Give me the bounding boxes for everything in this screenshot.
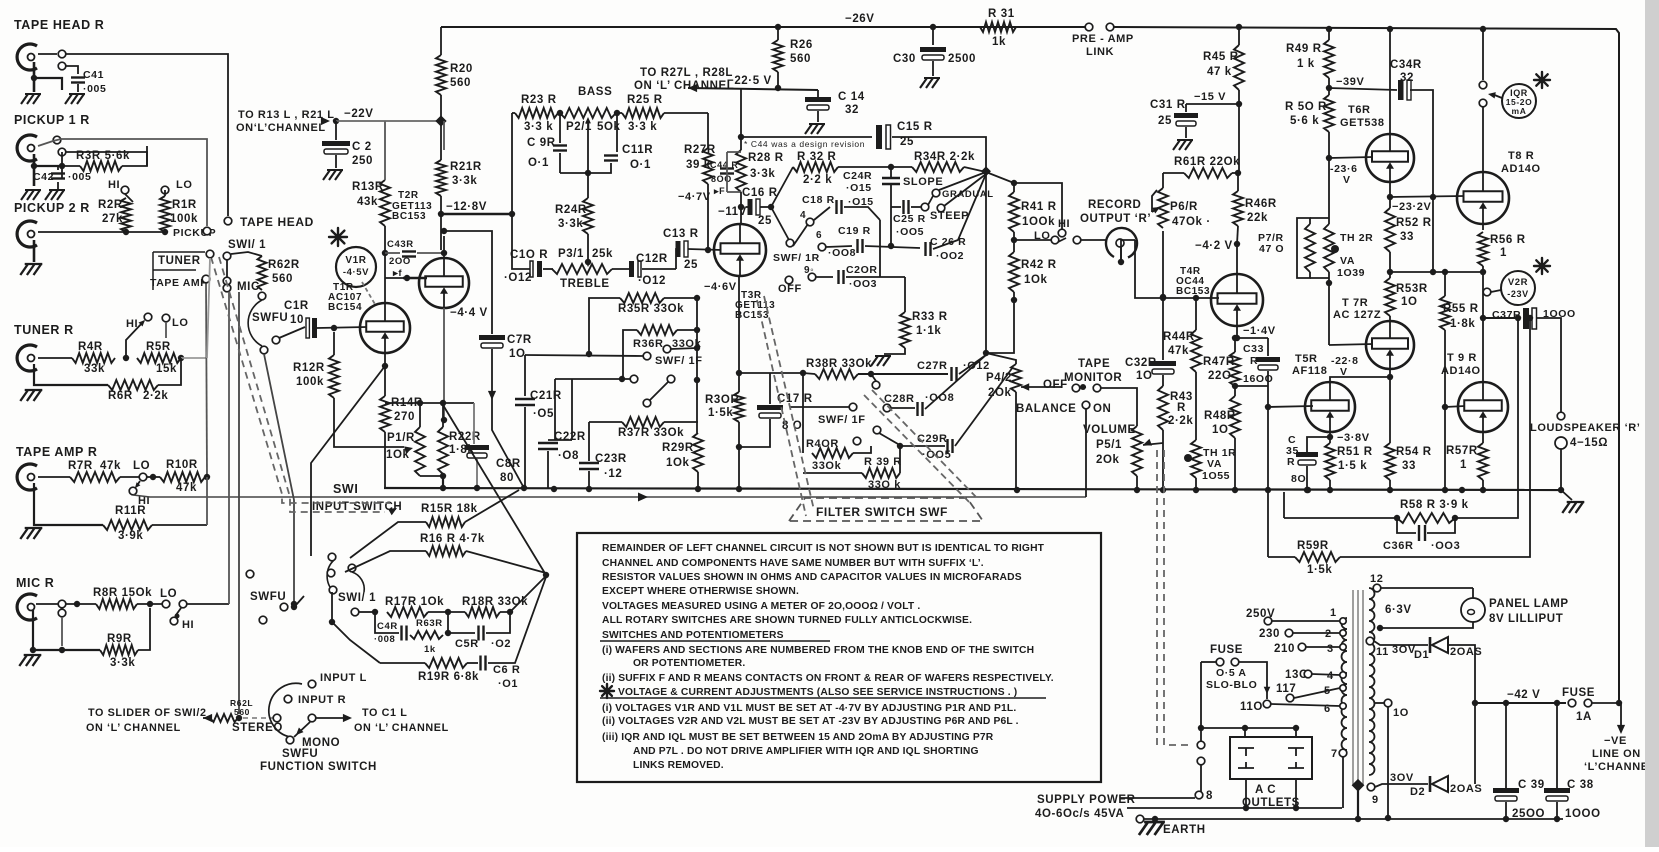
wire <box>137 603 162 605</box>
svg-text:1OOk: 1OOk <box>1022 216 1055 228</box>
capacitor C13R <box>676 241 689 257</box>
wire <box>1390 196 1465 197</box>
resistor R43R <box>1158 386 1168 430</box>
dashed link <box>219 257 385 512</box>
resistor R42R <box>1009 252 1019 292</box>
label tap 5 <box>1324 685 1331 697</box>
svg-text:VA: VA <box>1340 255 1355 267</box>
wire <box>1389 252 1391 278</box>
svg-text:2·2k: 2·2k <box>1168 415 1193 427</box>
wire long diagonal <box>443 405 546 575</box>
svg-text:T 7R: T 7R <box>1342 297 1368 309</box>
label TUNER R <box>14 323 74 337</box>
label -4.7V <box>678 191 711 203</box>
contact link <box>1085 23 1093 31</box>
dashed filter box <box>789 498 983 521</box>
wire <box>61 152 63 178</box>
resistor R59R <box>1295 552 1340 562</box>
contact INPUT L <box>308 680 316 688</box>
label PICKUP 1 R <box>14 113 90 127</box>
capacitor C5R <box>479 626 484 641</box>
resistor R8R <box>96 599 137 609</box>
svg-text:C 39: C 39 <box>1518 779 1545 791</box>
svg-text:P1/R: P1/R <box>387 432 415 444</box>
wire <box>1284 517 1397 519</box>
svg-text:R48R: R48R <box>1204 410 1236 422</box>
node <box>585 259 591 265</box>
capacitor C43R grey <box>402 252 416 257</box>
svg-text:4: 4 <box>1327 670 1334 682</box>
label INPUT SWITCH <box>312 501 402 513</box>
node <box>1118 259 1124 265</box>
label C20R -003 <box>846 264 878 290</box>
wire <box>525 355 643 356</box>
svg-text:47Ok ·: 47Ok · <box>1172 216 1211 228</box>
resistor R55R <box>1440 296 1450 330</box>
capacitor C31R <box>1174 113 1198 126</box>
node <box>31 75 37 81</box>
label tap 1 <box>1330 607 1337 619</box>
svg-text:560: 560 <box>450 77 471 89</box>
meter V1R <box>336 247 376 287</box>
wire <box>380 662 425 664</box>
wire <box>1389 369 1391 377</box>
label R7R 47k LO <box>68 460 150 472</box>
capacitor C22R <box>538 443 558 449</box>
resistor R58R <box>1397 513 1455 523</box>
potentiometer P5/1 VOLUME <box>1132 426 1142 476</box>
svg-text:R11R: R11R <box>115 505 146 517</box>
svg-text:TO C1 L: TO C1 L <box>362 707 407 719</box>
node <box>382 363 388 369</box>
switch SWI/1 arc <box>327 560 334 592</box>
svg-text:INPUT L: INPUT L <box>320 672 367 684</box>
wire <box>1329 480 1331 490</box>
capacitor C36R <box>1419 525 1425 541</box>
node -39V <box>1326 85 1332 91</box>
wire <box>616 112 622 114</box>
svg-text:1OOO: 1OOO <box>1565 808 1601 820</box>
label R49R 1k <box>1286 43 1322 70</box>
resistor R19R <box>425 658 467 668</box>
wire <box>1120 797 1195 799</box>
selector outline <box>153 252 205 290</box>
wire <box>1127 807 1342 809</box>
resistor R63R <box>410 631 443 639</box>
svg-text:A C: A C <box>1255 784 1276 796</box>
dashed gang link2 <box>1164 450 1193 745</box>
capacitor C12R <box>629 261 641 277</box>
label R52R 33 <box>1396 217 1432 243</box>
capacitor C15R <box>876 125 891 149</box>
wire <box>697 472 699 489</box>
node <box>1265 404 1271 410</box>
label R6R 2-2k <box>108 390 168 402</box>
wire <box>1483 317 1521 319</box>
svg-text:2: 2 <box>1325 628 1332 640</box>
node <box>1387 194 1393 200</box>
capacitor C35R <box>1296 452 1318 465</box>
contact IQ link <box>1479 81 1487 89</box>
wire <box>925 355 986 409</box>
label C11R 0-1 <box>622 144 653 171</box>
node <box>1242 725 1248 731</box>
node <box>1011 237 1017 243</box>
wire <box>1013 300 1015 330</box>
label R39R 330k <box>864 456 902 491</box>
wire <box>384 226 386 252</box>
node <box>1198 725 1204 731</box>
label SLOPE <box>903 176 943 188</box>
adjustment star <box>329 228 347 246</box>
label C30 2500 <box>893 53 976 65</box>
resistor R52R <box>1385 208 1395 252</box>
label T5R AF118 <box>1292 353 1327 377</box>
potentiometer P4/2 <box>1011 364 1021 392</box>
contact fuse2 <box>1584 699 1592 707</box>
svg-text:R54 R: R54 R <box>1396 446 1432 458</box>
contact STEEP <box>937 204 945 212</box>
svg-text:C21R: C21R <box>530 390 562 402</box>
wire <box>741 136 872 138</box>
wire <box>817 90 819 98</box>
wire <box>1014 239 1051 241</box>
wire <box>760 206 771 208</box>
transistor T2R <box>419 258 469 308</box>
node bus junction <box>1134 487 1140 493</box>
wire <box>559 153 561 173</box>
svg-text:R3OR: R3OR <box>705 394 739 406</box>
label P6/R 470k <box>1170 201 1211 228</box>
label C16R 25 <box>742 187 778 227</box>
wire <box>500 576 546 612</box>
svg-text:·O12: ·O12 <box>504 272 532 284</box>
label R41R 100k <box>1021 201 1057 228</box>
wire <box>1427 518 1455 533</box>
wire <box>333 332 335 355</box>
node bus junction <box>521 485 527 491</box>
svg-text:3OV: 3OV <box>1390 772 1414 784</box>
svg-text:3·3k: 3·3k <box>110 657 135 669</box>
node bus junction <box>1442 487 1448 493</box>
label 11 30V D1 <box>1376 644 1429 661</box>
label -15V <box>1194 91 1226 103</box>
svg-text:8: 8 <box>1206 790 1213 802</box>
contact <box>351 608 359 616</box>
label BALANCE <box>1016 403 1076 415</box>
wire tap <box>1271 704 1340 706</box>
svg-text:SWI/ 1: SWI/ 1 <box>338 592 376 604</box>
wire <box>486 612 510 633</box>
jack TUNER R input socket <box>17 345 37 371</box>
resistor R48R <box>1230 396 1240 438</box>
svg-text:8V LILLIPUT: 8V LILLIPUT <box>1489 613 1563 625</box>
node <box>1326 280 1332 286</box>
svg-text:8OO: 8OO <box>711 174 732 184</box>
contact tap 7 <box>1339 749 1347 757</box>
label C39 2500 <box>1512 779 1545 820</box>
svg-text:TO R27L , R28L: TO R27L , R28L <box>640 67 733 79</box>
svg-text:100k: 100k <box>296 376 324 388</box>
wire tape head to switch <box>38 53 57 55</box>
svg-text:R10R: R10R <box>166 459 198 471</box>
svg-text:TH 2R: TH 2R <box>1340 232 1373 244</box>
label R43 R 2-2k <box>1168 391 1193 427</box>
label -4.6V <box>704 281 737 293</box>
potentiometer P3/1 TREBLE <box>552 264 612 274</box>
label C21R -05 <box>530 390 562 420</box>
label tap 4 <box>1327 670 1334 682</box>
svg-text:·O8: ·O8 <box>558 450 579 462</box>
resistor R6R <box>108 380 158 390</box>
label R61R 220k <box>1174 156 1240 168</box>
svg-text:ON: ON <box>1093 403 1111 415</box>
resistor R11R <box>103 520 152 530</box>
resistor R20 <box>436 55 446 95</box>
jack PICKUP 1 R input socket <box>17 135 37 161</box>
node -12.8V <box>438 211 444 217</box>
svg-text:560: 560 <box>272 273 293 285</box>
ground <box>19 655 41 666</box>
label R17R 10k <box>385 596 444 608</box>
wire <box>331 592 333 622</box>
label T4R OC44 BC153 <box>1176 266 1210 297</box>
svg-text:−22V: −22V <box>344 108 374 120</box>
svg-text:2Ok: 2Ok <box>1096 454 1120 466</box>
contact <box>328 553 336 561</box>
label R62L 560 <box>230 698 253 717</box>
label -12.8V <box>446 201 487 213</box>
label TAPE AMP R <box>16 445 97 459</box>
wire <box>1444 272 1446 296</box>
wire <box>385 402 474 404</box>
contact <box>348 564 356 572</box>
meter V2R <box>1501 271 1535 305</box>
switch wiper <box>175 608 182 619</box>
capacitor C41 <box>71 78 85 83</box>
label LO <box>176 179 192 191</box>
wire MIC feed <box>228 292 230 604</box>
wire -42V rail <box>1475 702 1566 704</box>
label R20 560 <box>450 63 473 89</box>
label R29R 10k <box>662 442 694 469</box>
wire <box>466 551 546 573</box>
wire fan up <box>771 167 793 207</box>
resistor R14R <box>380 396 390 432</box>
svg-text:−23·2V: −23·2V <box>1392 201 1431 213</box>
label C29R -005 <box>917 433 951 461</box>
wire <box>677 329 697 331</box>
svg-text:5·6 k: 5·6 k <box>1290 115 1319 127</box>
svg-text:R25 R: R25 R <box>627 94 663 106</box>
resistor R17R <box>387 607 428 617</box>
svg-text:C11R: C11R <box>622 144 653 156</box>
label -1.4V <box>1243 325 1276 337</box>
svg-text:C5R: C5R <box>455 638 479 650</box>
ground <box>323 170 343 180</box>
transistor T4R <box>1211 274 1263 326</box>
wire <box>443 308 445 420</box>
wire <box>1357 790 1359 819</box>
label 11O tap <box>1240 701 1263 713</box>
wire <box>1201 727 1296 729</box>
resistor R57R <box>1478 443 1488 480</box>
contact SWI/1 <box>223 252 231 260</box>
meter IQR <box>1502 84 1536 118</box>
svg-text:OFF: OFF <box>778 283 802 295</box>
label C4R -008 <box>374 621 398 645</box>
wire <box>739 372 770 374</box>
svg-text:250: 250 <box>352 155 373 167</box>
node bus junction <box>1459 487 1465 493</box>
label C19R -008 <box>828 225 871 259</box>
node bus junction <box>586 486 592 492</box>
label FUSE 1A <box>1562 687 1595 699</box>
label C25R -005 <box>893 213 926 238</box>
wire <box>1186 103 1239 105</box>
node <box>888 243 894 249</box>
svg-text:SWF/ 1R: SWF/ 1R <box>773 252 820 264</box>
wire <box>1387 707 1389 818</box>
node <box>1377 625 1383 631</box>
dashed link wafer2b <box>864 395 970 503</box>
node STEREO <box>236 715 242 721</box>
wire <box>1307 437 1330 452</box>
resistor R18R <box>465 607 500 617</box>
svg-text:(i) VOLTAGES V1R AND V1L: (i) VOLTAGES V1R AND V1L MUST BE SET AT … <box>602 703 1016 714</box>
node bus junction <box>1480 487 1486 493</box>
wire <box>1237 173 1239 191</box>
svg-text:C31 R: C31 R <box>1150 99 1186 111</box>
svg-text:1O: 1O <box>1212 424 1229 436</box>
node bus junction <box>1327 487 1333 493</box>
wire <box>36 603 58 605</box>
svg-text:R 39 R: R 39 R <box>864 456 902 468</box>
wire <box>1592 702 1619 704</box>
node <box>1326 155 1332 161</box>
capacitor C17R <box>757 405 783 418</box>
wire <box>1397 518 1416 533</box>
wire <box>1200 662 1202 741</box>
label R9R 3-3k <box>107 633 135 669</box>
resistor R16R <box>426 546 466 556</box>
capacitor C30 <box>920 47 946 60</box>
svg-text:25OO: 25OO <box>1512 808 1545 820</box>
svg-text:R61R 22Ok: R61R 22Ok <box>1174 156 1240 168</box>
svg-text:C4R: C4R <box>377 621 398 632</box>
contact <box>144 313 152 321</box>
contact 230 <box>1285 629 1293 637</box>
svg-text:R46R: R46R <box>1245 198 1277 210</box>
svg-text:T6R: T6R <box>1348 104 1371 116</box>
svg-text:C42: C42 <box>33 171 54 183</box>
label R16 R 4-7k <box>420 533 485 545</box>
wire <box>554 379 556 440</box>
node <box>59 163 65 169</box>
wire <box>1268 556 1295 558</box>
node bus junction <box>736 486 742 492</box>
contact OFF <box>785 276 793 284</box>
wire <box>1239 662 1267 699</box>
wire <box>1342 757 1344 808</box>
svg-text:LO: LO <box>160 588 177 600</box>
svg-text:ON ‘L’ CHANNEL: ON ‘L’ CHANNEL <box>354 722 449 734</box>
contact ON <box>1082 401 1090 409</box>
label C34R 32 <box>1390 59 1422 84</box>
svg-text:OR POTENTIOMETER.: OR POTENTIOMETER. <box>633 658 745 669</box>
label -3.8V <box>1337 432 1370 444</box>
svg-text:1O55: 1O55 <box>1202 470 1230 482</box>
wire <box>1195 478 1197 490</box>
wire <box>1310 277 1329 279</box>
resistor R62L <box>210 714 238 722</box>
node <box>736 444 742 450</box>
svg-text:V: V <box>1343 174 1351 186</box>
label C38 1000 <box>1565 779 1601 820</box>
contact tap 10 <box>1384 699 1392 707</box>
label SWI/1 lower <box>338 592 376 604</box>
svg-text:C27R: C27R <box>917 360 948 372</box>
svg-text:6·3V: 6·3V <box>1385 604 1412 616</box>
resistor R46R <box>1233 191 1243 226</box>
contact MONO <box>286 736 294 744</box>
node <box>147 601 153 607</box>
svg-text:C15 R: C15 R <box>897 121 933 133</box>
wire <box>1234 338 1236 352</box>
label R53R 10 <box>1396 283 1428 308</box>
wire <box>1329 88 1397 90</box>
wire <box>350 522 426 558</box>
label C27R -012 <box>917 360 990 372</box>
node <box>614 110 620 116</box>
node <box>59 647 65 653</box>
svg-text:12: 12 <box>1370 573 1383 585</box>
node <box>1234 335 1240 341</box>
svg-text:R2R: R2R <box>98 199 123 211</box>
node <box>768 204 774 210</box>
node bus junction <box>1232 487 1238 493</box>
wire <box>846 276 880 278</box>
wire <box>904 277 906 312</box>
wire <box>1389 480 1391 490</box>
svg-text:RESISTOR VALUES SHOWN IN O: RESISTOR VALUES SHOWN IN OHMS AND CAPACI… <box>602 572 1022 583</box>
dashed arrow <box>388 508 397 515</box>
wire <box>317 327 367 328</box>
svg-text:27k: 27k <box>102 213 123 225</box>
wire <box>181 357 207 359</box>
svg-text:(ii) VOLTAGES V2R AND V2L: (ii) VOLTAGES V2R AND V2L MUST BE SET AT… <box>602 716 1019 727</box>
label SWFU <box>252 312 288 324</box>
label FUSE <box>1210 644 1243 656</box>
wiper <box>1143 439 1163 446</box>
svg-text:C33: C33 <box>1243 343 1264 355</box>
contact PICKUP <box>203 227 211 235</box>
svg-text:560: 560 <box>790 53 811 65</box>
wire <box>803 472 862 474</box>
wiper <box>1152 190 1160 214</box>
ground <box>920 78 940 88</box>
svg-text:·OO3: ·OO3 <box>849 278 877 290</box>
star note marker <box>600 684 614 698</box>
svg-text:R52 R: R52 R <box>1396 217 1432 229</box>
wire <box>66 54 228 216</box>
ground <box>45 190 65 200</box>
svg-text:3: 3 <box>1327 643 1334 655</box>
jack TAPE HEAD R input socket <box>17 44 37 70</box>
label 13O tap <box>1285 669 1309 681</box>
contact tap 12 <box>1373 584 1381 592</box>
svg-text:C17 R: C17 R <box>777 393 813 405</box>
